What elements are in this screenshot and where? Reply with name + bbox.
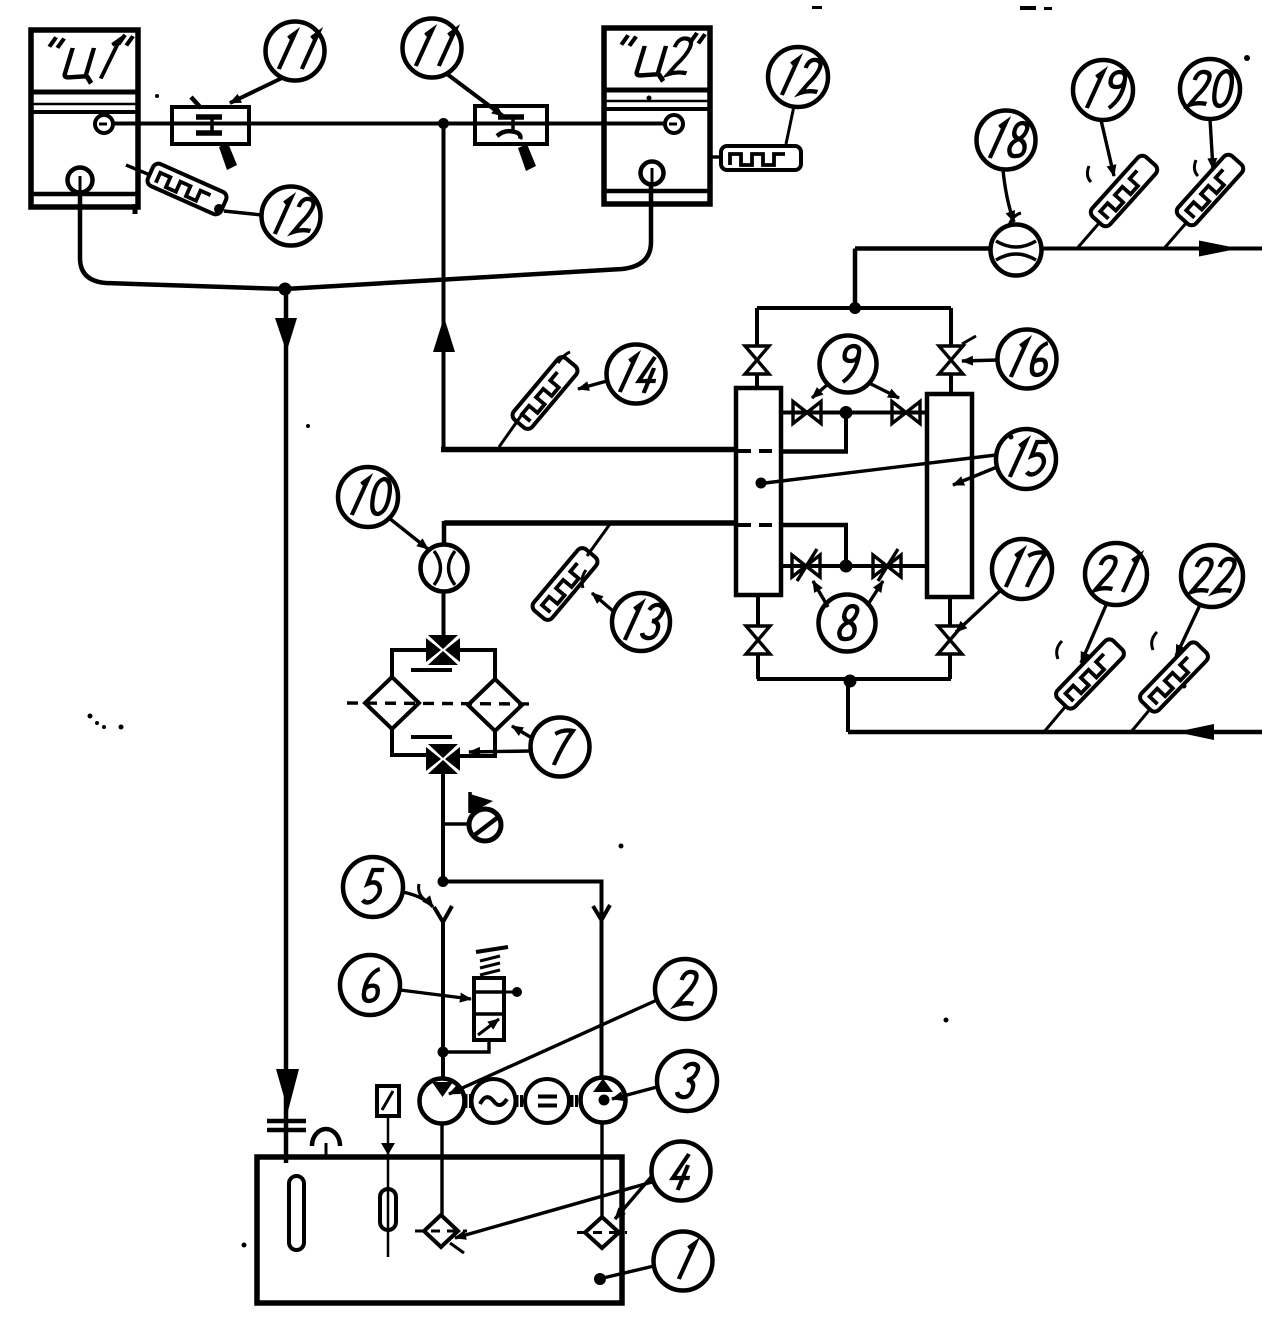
sensor 21 xyxy=(1044,637,1126,732)
callout 9 xyxy=(812,336,899,399)
callout 8 xyxy=(813,581,883,652)
callout 19 xyxy=(1073,60,1133,182)
callout 17 xyxy=(956,539,1052,632)
flow arrow down on return line xyxy=(275,318,297,352)
node: pump branch tee xyxy=(438,876,449,887)
wire: filter block top left branch xyxy=(392,650,428,678)
callout 16 xyxy=(962,330,1057,389)
wire: bottom manifold xyxy=(757,677,951,681)
check valve on right branch xyxy=(593,905,610,920)
cylinder C2 upper port xyxy=(665,115,683,133)
wire: upper pipe to left column xyxy=(441,447,736,453)
level gauge xyxy=(289,1176,304,1250)
wire: bottom inlet line with arrow xyxy=(848,724,1262,740)
pipe union at tank inlet xyxy=(267,1121,306,1130)
cylinder C1 body xyxy=(31,30,138,214)
check valve 5 on main line xyxy=(434,906,452,922)
ball valve 10 xyxy=(421,545,468,592)
wire: top manifold xyxy=(757,306,951,310)
tank 1 xyxy=(257,1157,622,1303)
cross valve top of filter block xyxy=(411,635,460,670)
node: top tee junction xyxy=(438,118,449,129)
callout 12 left xyxy=(262,187,321,246)
throttle valve 11a xyxy=(172,97,249,170)
wire: lower pipe dashed inside column xyxy=(737,523,781,527)
wire: pump 2 suction xyxy=(440,1124,443,1217)
filter dashed axis xyxy=(347,703,534,704)
callout 11 right xyxy=(403,19,504,117)
node: return junction xyxy=(279,283,292,296)
sensor 12 left xyxy=(126,162,262,216)
valve 8 right xyxy=(873,549,901,581)
callout 12 right xyxy=(768,47,828,107)
pressure gauge stub xyxy=(443,822,470,825)
shutoff valve 16 top right of column xyxy=(939,308,963,394)
node: top interconnect tee xyxy=(840,406,853,419)
wire: vertical below filter block xyxy=(441,771,445,881)
wire: pump 3 suction xyxy=(600,1123,603,1219)
sensor 14 xyxy=(499,352,580,447)
sensor 19 xyxy=(1077,153,1160,248)
valve 9 left xyxy=(793,402,821,424)
wire: filter block top right branch xyxy=(458,650,495,680)
pump 2 (main) xyxy=(420,1079,465,1124)
suction filter 4 right xyxy=(577,1217,627,1248)
cylinder C1 label xyxy=(42,35,134,83)
cylinder C2 label xyxy=(614,33,706,81)
throttle valve 11b xyxy=(475,106,547,171)
callout 3 xyxy=(612,1051,717,1111)
motor AC xyxy=(472,1079,516,1123)
wire: lower pipe column to stub xyxy=(781,523,848,528)
relief valve 6 xyxy=(443,947,522,1052)
callout 1 xyxy=(594,1232,713,1291)
wire: return bend from C2 xyxy=(285,184,651,289)
wire: ball valve 10 top stub xyxy=(442,521,447,546)
sensor 13 xyxy=(530,524,610,622)
pump 3 (aux) xyxy=(581,1078,626,1123)
wire: outlet line right with arrow xyxy=(1042,241,1262,257)
shutoff valve top left of column xyxy=(745,308,769,390)
wire: bottom interconnect xyxy=(781,564,927,568)
wire: filter block bottom left branch xyxy=(392,729,429,755)
filter F2 right diamond xyxy=(468,679,522,731)
ball valve 18 xyxy=(991,225,1042,276)
wire: upper pipe dashed inside column xyxy=(737,449,781,453)
wire: outlet line left of ball valve 18 xyxy=(855,246,992,251)
callout 7 xyxy=(469,718,590,777)
pressure gauge xyxy=(469,792,501,841)
flow arrow up on main vertical xyxy=(433,317,455,352)
cylinder C2 lower port xyxy=(641,162,664,185)
cylinder C2 body xyxy=(604,28,710,204)
node: bottom manifold tee xyxy=(844,675,857,688)
wire: stub from lower pipe to interconnect xyxy=(844,525,848,566)
callout 10 xyxy=(338,467,428,549)
callout 11 left xyxy=(230,22,325,104)
wire: filter block bottom right branch xyxy=(458,731,495,756)
filter F1 left diamond xyxy=(365,677,419,729)
valve 8 left xyxy=(792,549,820,581)
wire: top line C1 to C2 xyxy=(113,122,666,126)
motor DC xyxy=(525,1079,569,1123)
wire: upper pipe column to stub xyxy=(781,449,848,454)
callout 6 xyxy=(340,955,471,1015)
wire: stub from upper pipe to interconnect xyxy=(844,413,848,454)
wire: main line check valve to pump 2 xyxy=(441,922,445,1079)
wire: top interconnect xyxy=(781,411,927,415)
callout 2 xyxy=(449,959,715,1094)
callout 18 xyxy=(977,111,1036,226)
column 15 right xyxy=(927,394,972,597)
sensor 20 xyxy=(1164,152,1246,248)
callout 13 xyxy=(582,570,670,651)
node: bottom interconnect tee xyxy=(840,560,853,573)
node: manifold top junction xyxy=(849,302,861,314)
wire: branch to right pump xyxy=(443,882,602,1079)
callout 21 xyxy=(1057,543,1147,663)
suction filter 4 left xyxy=(415,1215,467,1247)
wire: left return line down to tank xyxy=(284,289,289,1163)
node: relief valve tap xyxy=(438,1047,449,1058)
wire: ball valve 10 bottom stub xyxy=(442,590,446,637)
callout 22 xyxy=(1152,545,1243,656)
breather cap xyxy=(312,1129,340,1158)
callout 15 xyxy=(756,429,1057,489)
wire: lower pipe from ball valve 10 xyxy=(444,520,736,526)
callout 14 xyxy=(578,345,666,404)
wire: stub down from bottom manifold xyxy=(846,679,850,732)
shaft couplings xyxy=(466,1094,577,1108)
left column bottom valve xyxy=(746,595,770,679)
flow arrow cone above tank union xyxy=(276,1069,299,1111)
callout 4 xyxy=(450,1142,711,1254)
valve 9 right xyxy=(892,402,920,424)
cylinder C1 lower port xyxy=(68,168,93,193)
callout 5 xyxy=(343,857,433,917)
callout 20 xyxy=(1180,59,1240,176)
sensor 12 right xyxy=(710,106,801,170)
thermometer xyxy=(377,1086,399,1257)
wire: feed corner down to manifold xyxy=(853,249,858,309)
column 15 left xyxy=(736,388,781,595)
cylinder C1 upper port xyxy=(95,115,113,133)
wire: return bend from C1 xyxy=(80,192,285,289)
cross valve bottom of filter block xyxy=(411,737,460,774)
valve 17 right column bottom xyxy=(938,597,962,679)
wire: main vertical from top tee xyxy=(442,124,446,451)
sensor 22 xyxy=(1131,640,1210,732)
